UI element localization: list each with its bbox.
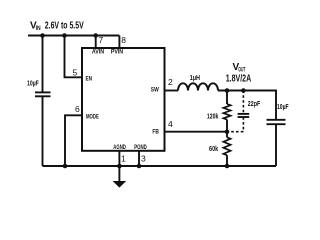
resistor R1 120k bbox=[223, 91, 230, 132]
wire VOUT node bbox=[218, 91, 276, 120]
svg-text:8: 8 bbox=[121, 35, 126, 45]
node junction dot FB bbox=[225, 129, 230, 134]
svg-text:1µH: 1µH bbox=[190, 75, 200, 82]
wire VIN top rail bbox=[28, 35, 119, 37]
capacitor C3 10uF output bbox=[267, 120, 286, 166]
wire FB pin 4 bbox=[165, 131, 228, 133]
node junction dot at R1 branch bbox=[225, 88, 230, 93]
node junction dot at AVIN pin 7 bbox=[93, 33, 98, 38]
node junction dot R2 to ground rail bbox=[225, 164, 230, 169]
node junction dot at EN branch bbox=[62, 33, 67, 38]
svg-text:4: 4 bbox=[168, 119, 173, 129]
svg-text:PGND: PGND bbox=[134, 145, 147, 151]
wire SW pin 2 bbox=[165, 90, 179, 92]
capacitor C2 22pF optional (dashed) bbox=[229, 91, 249, 132]
svg-text:3: 3 bbox=[141, 154, 146, 164]
ground bbox=[113, 166, 127, 188]
capacitor C1 10uF input bbox=[35, 36, 51, 167]
svg-text:7: 7 bbox=[99, 35, 104, 45]
pin 7 wire bbox=[95, 36, 97, 49]
svg-text:6: 6 bbox=[75, 104, 80, 114]
wire ground rail bbox=[43, 165, 277, 167]
wire EN pin 5 bbox=[65, 36, 83, 78]
svg-text:60k: 60k bbox=[209, 146, 218, 153]
node VOUT label bbox=[226, 62, 252, 85]
svg-text:2: 2 bbox=[168, 77, 173, 87]
svg-text:MODE: MODE bbox=[86, 114, 99, 120]
svg-text:AVIN: AVIN bbox=[92, 50, 104, 56]
svg-text:FB: FB bbox=[152, 129, 159, 135]
svg-text:120k: 120k bbox=[207, 113, 218, 120]
node VIN label bbox=[30, 21, 84, 33]
node junction dot AGND bbox=[117, 164, 122, 169]
pin 8 wire bbox=[118, 36, 120, 49]
node junction dot MODE to ground rail bbox=[63, 164, 68, 169]
node junction dot at C2 branch bbox=[241, 88, 246, 93]
resistor R2 60k bbox=[223, 132, 230, 166]
svg-text:OUT: OUT bbox=[238, 67, 245, 74]
op-amp U1 IC block bbox=[82, 48, 165, 151]
svg-text:SW: SW bbox=[151, 87, 159, 93]
svg-text:10µF: 10µF bbox=[277, 104, 289, 111]
svg-text:22pF: 22pF bbox=[248, 101, 261, 108]
svg-text:AGND: AGND bbox=[113, 145, 126, 151]
pin 3 PGND wire bbox=[138, 151, 140, 166]
svg-text:1.8V/2A: 1.8V/2A bbox=[226, 74, 252, 85]
wire MODE pin 6 bbox=[65, 115, 82, 166]
svg-text:EN: EN bbox=[86, 77, 93, 83]
svg-text:5: 5 bbox=[73, 68, 78, 78]
node junction dot PGND bbox=[137, 164, 142, 169]
pin 1 AGND wire bbox=[118, 151, 120, 166]
svg-text:10µF: 10µF bbox=[27, 80, 39, 87]
svg-text:1: 1 bbox=[121, 154, 126, 164]
svg-text:IN: IN bbox=[36, 25, 41, 32]
node junction dot at input cap bbox=[40, 33, 45, 38]
inductor L1 1uH bbox=[178, 83, 218, 90]
svg-text:PVIN: PVIN bbox=[111, 50, 123, 56]
svg-text:2.6V to 5.5V: 2.6V to 5.5V bbox=[45, 21, 84, 32]
